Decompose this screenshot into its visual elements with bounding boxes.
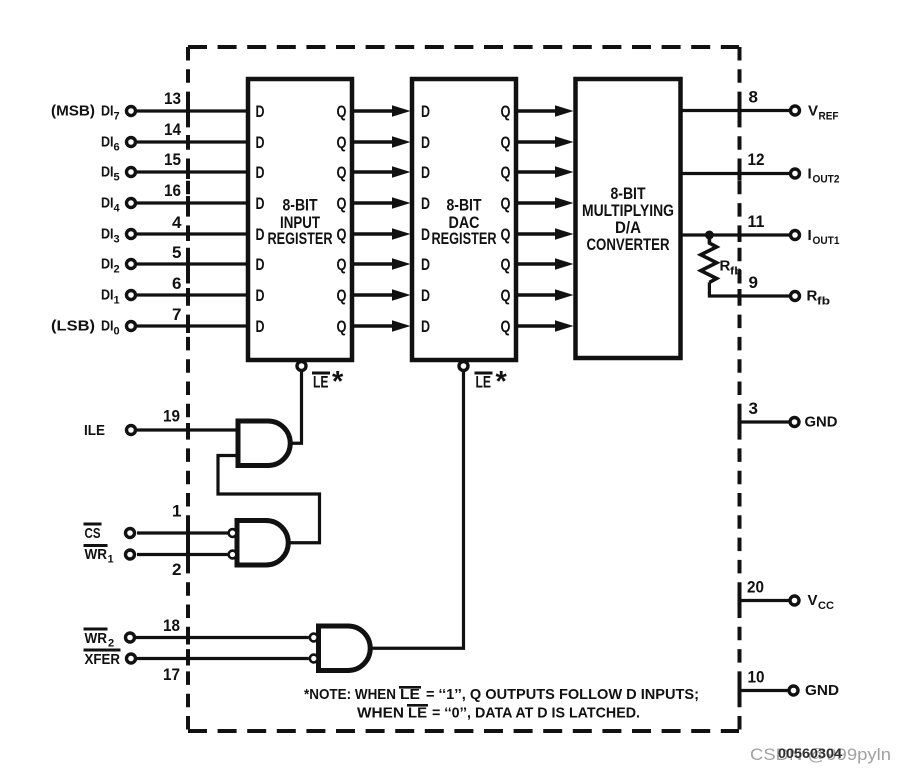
- label DI2: [101, 256, 120, 276]
- label IOUT2: [808, 166, 840, 186]
- svg-text:D: D: [256, 102, 265, 121]
- note text line 1: [304, 686, 699, 703]
- register U2 D pin labels: [421, 102, 430, 336]
- terminal DI5: [127, 168, 136, 177]
- svg-text:D: D: [421, 255, 430, 274]
- terminal CS: [126, 529, 135, 538]
- terminal XFER: [127, 654, 136, 663]
- label DI6: [101, 134, 120, 154]
- wire DI4 input: [137, 201, 248, 204]
- svg-text:D: D: [256, 225, 265, 244]
- pin number 15: [164, 150, 181, 169]
- pin number 9: [749, 273, 758, 292]
- svg-text:WR: WR: [85, 546, 108, 563]
- svg-text:DI: DI: [101, 195, 114, 212]
- terminal WR2: [126, 633, 135, 642]
- register U2 Q pin labels: [501, 102, 511, 336]
- svg-text:D: D: [256, 317, 265, 336]
- svg-text:D: D: [421, 317, 430, 336]
- svg-text:OUT1: OUT1: [813, 235, 840, 247]
- pin number 17: [163, 665, 180, 684]
- svg-text:17: 17: [163, 665, 180, 684]
- label IOUT1: [808, 227, 840, 247]
- pin number 12: [748, 150, 765, 169]
- pin number 13: [164, 89, 181, 108]
- svg-text:7: 7: [114, 111, 120, 123]
- 8-bit input register U1: [248, 79, 352, 360]
- LE pin of U2: [370, 362, 468, 649]
- svg-text:Q: Q: [337, 255, 347, 274]
- wire WR1 input: [137, 553, 228, 556]
- svg-text:(LSB): (LSB): [51, 318, 95, 335]
- svg-text:1: 1: [108, 554, 114, 566]
- register U1 Q pin labels: [337, 102, 347, 336]
- svg-text:4: 4: [114, 203, 121, 215]
- svg-text:Q: Q: [501, 225, 511, 244]
- svg-text:8-BIT: 8-BIT: [447, 196, 483, 215]
- svg-text:3: 3: [749, 399, 758, 418]
- terminal VREF: [791, 106, 800, 115]
- terminal GND pin3: [790, 418, 799, 427]
- bus arrows U2 Q to U3: [516, 105, 574, 331]
- terminal DI6: [127, 138, 136, 147]
- svg-text:19: 19: [163, 407, 180, 426]
- svg-text:V: V: [808, 592, 818, 609]
- svg-text:15: 15: [164, 150, 181, 169]
- svg-text:20: 20: [747, 578, 764, 597]
- wire DI2 input: [137, 262, 248, 265]
- border crossing ticks left: [186, 104, 190, 666]
- svg-text:D: D: [256, 194, 265, 213]
- svg-text:D: D: [256, 286, 265, 305]
- and gate G1: [238, 421, 290, 466]
- svg-text:*NOTE: WHEN: *NOTE: WHEN: [304, 686, 396, 703]
- label WR1: [84, 544, 114, 566]
- svg-text:8: 8: [749, 88, 758, 107]
- svg-text:I: I: [808, 166, 812, 183]
- pin number 19: [163, 407, 180, 426]
- chip dashed border left: [186, 47, 190, 731]
- pin number 14: [164, 120, 181, 139]
- svg-text:14: 14: [164, 120, 181, 139]
- svg-text:fb: fb: [817, 296, 830, 308]
- border crossing ticks right: [738, 104, 742, 698]
- chip dashed border top: [188, 45, 739, 49]
- 8-bit multiplying D/A converter U3: [576, 79, 681, 358]
- label DI5: [101, 164, 120, 184]
- svg-text:4: 4: [172, 213, 182, 232]
- svg-text:CONVERTER: CONVERTER: [587, 235, 670, 254]
- wire XFER input: [136, 657, 309, 660]
- terminal WR1: [126, 550, 135, 559]
- label GND pin10: [805, 682, 839, 699]
- svg-text:Q: Q: [337, 286, 347, 305]
- svg-text:WR: WR: [85, 630, 108, 647]
- svg-text:REGISTER: REGISTER: [432, 229, 497, 248]
- svg-text:8-BIT: 8-BIT: [283, 196, 319, 215]
- svg-text:CC: CC: [818, 600, 834, 612]
- pin number 1: [172, 502, 181, 521]
- svg-text:Q: Q: [501, 255, 511, 274]
- label VREF: [808, 103, 839, 123]
- svg-text:XFER: XFER: [85, 651, 121, 668]
- label DI3: [101, 226, 120, 246]
- pin number 16: [164, 181, 181, 200]
- svg-text:9: 9: [749, 273, 758, 292]
- and gate G2: [229, 521, 289, 566]
- svg-text:DI: DI: [101, 164, 114, 181]
- svg-text:R: R: [720, 258, 731, 275]
- svg-text:10: 10: [748, 668, 765, 687]
- svg-text:REF: REF: [819, 111, 839, 123]
- pin number 6: [172, 274, 181, 293]
- wire VCC: [740, 599, 790, 602]
- pin number 7: [172, 305, 181, 324]
- svg-text:OUT2: OUT2: [813, 174, 840, 186]
- pin number 4: [172, 213, 182, 232]
- wire DI6 input: [137, 140, 248, 143]
- wire DI7 input: [137, 109, 248, 112]
- svg-text:0: 0: [114, 326, 120, 338]
- svg-text:DI: DI: [101, 226, 114, 243]
- svg-text:Q: Q: [501, 102, 511, 121]
- label CS: [84, 523, 102, 543]
- svg-text:DI: DI: [101, 256, 114, 273]
- svg-text:18: 18: [163, 616, 180, 635]
- 8-bit DAC register U2: [412, 79, 516, 360]
- wire Rfb output: [709, 282, 790, 296]
- pin number 8: [749, 88, 758, 107]
- LE pin of U1: [290, 362, 306, 444]
- wire ILE input: [137, 428, 238, 431]
- svg-text:6: 6: [172, 274, 181, 293]
- terminal ILE: [127, 426, 136, 435]
- pin number 3: [749, 399, 758, 418]
- svg-text:D: D: [421, 286, 430, 305]
- svg-text:Q: Q: [501, 163, 511, 182]
- figure number 00560304: [778, 745, 842, 761]
- watermark CSDN: [750, 745, 891, 764]
- wire GND pin10: [740, 689, 789, 692]
- svg-text:D: D: [421, 163, 430, 182]
- label WR2: [84, 628, 115, 650]
- label DI1: [101, 287, 120, 307]
- wire IOUT1 output: [681, 233, 790, 236]
- label ILE: [84, 422, 105, 439]
- label GND pin3: [805, 414, 838, 431]
- svg-text:WHEN: WHEN: [357, 705, 404, 722]
- svg-text:fb: fb: [730, 266, 742, 278]
- svg-text:2: 2: [108, 638, 114, 650]
- svg-text:R: R: [807, 288, 818, 305]
- svg-text:LE: LE: [476, 373, 492, 392]
- label XFER: [84, 649, 121, 669]
- svg-text:D: D: [421, 133, 430, 152]
- svg-text:Q: Q: [501, 317, 511, 336]
- register U1 D pin labels: [256, 102, 265, 336]
- svg-text:CS: CS: [85, 525, 101, 542]
- label VCC: [808, 592, 835, 612]
- svg-text:Q: Q: [337, 317, 347, 336]
- svg-text:DI: DI: [101, 134, 114, 151]
- terminal VCC: [790, 596, 799, 605]
- svg-text:Q: Q: [337, 133, 347, 152]
- svg-text:(MSB): (MSB): [51, 103, 95, 120]
- svg-text:ILE: ILE: [84, 422, 105, 439]
- svg-text:D: D: [256, 133, 265, 152]
- label LE* of U1: [312, 366, 344, 398]
- terminal DI2: [127, 260, 136, 269]
- wire DI0 input: [137, 324, 248, 327]
- label LE* of U2: [475, 366, 508, 398]
- wire CS input: [137, 531, 228, 534]
- svg-text:GND: GND: [805, 414, 838, 431]
- wire DI1 input: [137, 293, 248, 296]
- wire VREF output: [681, 109, 790, 112]
- svg-text:Q: Q: [337, 163, 347, 182]
- label DI4: [101, 195, 121, 215]
- svg-text:D: D: [256, 255, 265, 274]
- wire GND pin3: [740, 420, 790, 423]
- bus arrows U1 Q to U2 D: [352, 105, 411, 331]
- svg-text:12: 12: [748, 150, 765, 169]
- pin number 5: [172, 243, 181, 262]
- svg-text:5: 5: [114, 172, 120, 184]
- svg-text:Q: Q: [337, 194, 347, 213]
- svg-text:2: 2: [172, 560, 181, 579]
- svg-text:Q: Q: [501, 286, 511, 305]
- resistor Rfb: [701, 235, 717, 282]
- pin number 18: [163, 616, 180, 635]
- pin number 2: [172, 560, 181, 579]
- svg-text:13: 13: [164, 89, 181, 108]
- label (MSB) DI7: [51, 103, 120, 123]
- wire WR2 input: [136, 636, 309, 639]
- svg-text:Q: Q: [337, 225, 347, 244]
- svg-text:REGISTER: REGISTER: [268, 229, 333, 248]
- label Rfb (resistor): [720, 258, 743, 278]
- terminal DI3: [127, 230, 136, 239]
- svg-text:DI: DI: [101, 318, 114, 335]
- svg-text:D: D: [421, 194, 430, 213]
- terminal DI1: [127, 291, 136, 300]
- svg-text:Q: Q: [501, 133, 511, 152]
- label (LSB) DI0: [51, 318, 120, 338]
- label Rfb (pin): [807, 288, 831, 308]
- terminal DI7: [127, 107, 136, 116]
- terminal DI0: [127, 322, 136, 331]
- pin number 20: [747, 578, 764, 597]
- svg-text:*: *: [496, 366, 508, 398]
- svg-text:= ‘‘0’’, DATA AT D IS LATCHED.: = ‘‘0’’, DATA AT D IS LATCHED.: [432, 705, 640, 722]
- svg-text:1: 1: [172, 502, 181, 521]
- svg-text:3: 3: [114, 234, 120, 246]
- svg-text:LE: LE: [408, 705, 427, 722]
- svg-text:Q: Q: [337, 102, 347, 121]
- wire DI3 input: [137, 232, 248, 235]
- svg-text:D: D: [256, 163, 265, 182]
- svg-text:D: D: [421, 102, 430, 121]
- svg-text:LE: LE: [313, 373, 329, 392]
- pin number 10: [748, 668, 765, 687]
- svg-text:= ‘‘1’’, Q OUTPUTS FOLLOW D IN: = ‘‘1’’, Q OUTPUTS FOLLOW D INPUTS;: [426, 686, 699, 703]
- wire DI5 input: [137, 170, 248, 173]
- svg-text:11: 11: [748, 212, 765, 231]
- svg-text:1: 1: [114, 295, 120, 307]
- terminal IOUT1: [791, 231, 800, 240]
- pin number 11: [748, 212, 765, 231]
- and gate G3: [310, 626, 370, 671]
- svg-text:DI: DI: [101, 103, 114, 120]
- terminal DI4: [127, 199, 136, 208]
- svg-text:V: V: [808, 103, 818, 120]
- note text line 2: [357, 704, 640, 722]
- svg-text:00560304: 00560304: [778, 745, 842, 761]
- wire loop gate G2 output to gate G1 input: [218, 456, 320, 543]
- svg-text:Q: Q: [501, 194, 511, 213]
- svg-text:*: *: [332, 366, 344, 398]
- svg-text:I: I: [808, 227, 812, 244]
- svg-text:2: 2: [114, 264, 120, 276]
- svg-text:5: 5: [172, 243, 181, 262]
- chip dashed border right: [738, 47, 742, 731]
- chip dashed border bottom: [188, 729, 739, 733]
- svg-text:7: 7: [172, 305, 181, 324]
- wire IOUT2 output: [681, 172, 790, 175]
- terminal Rfb: [791, 292, 800, 301]
- terminal IOUT2: [791, 169, 800, 178]
- svg-text:DI: DI: [101, 287, 114, 304]
- junction node IOUT1/Rfb: [705, 231, 714, 240]
- svg-text:D: D: [421, 225, 430, 244]
- svg-text:16: 16: [164, 181, 181, 200]
- svg-text:6: 6: [114, 142, 120, 154]
- terminal GND pin10: [789, 686, 798, 695]
- svg-text:GND: GND: [805, 682, 839, 699]
